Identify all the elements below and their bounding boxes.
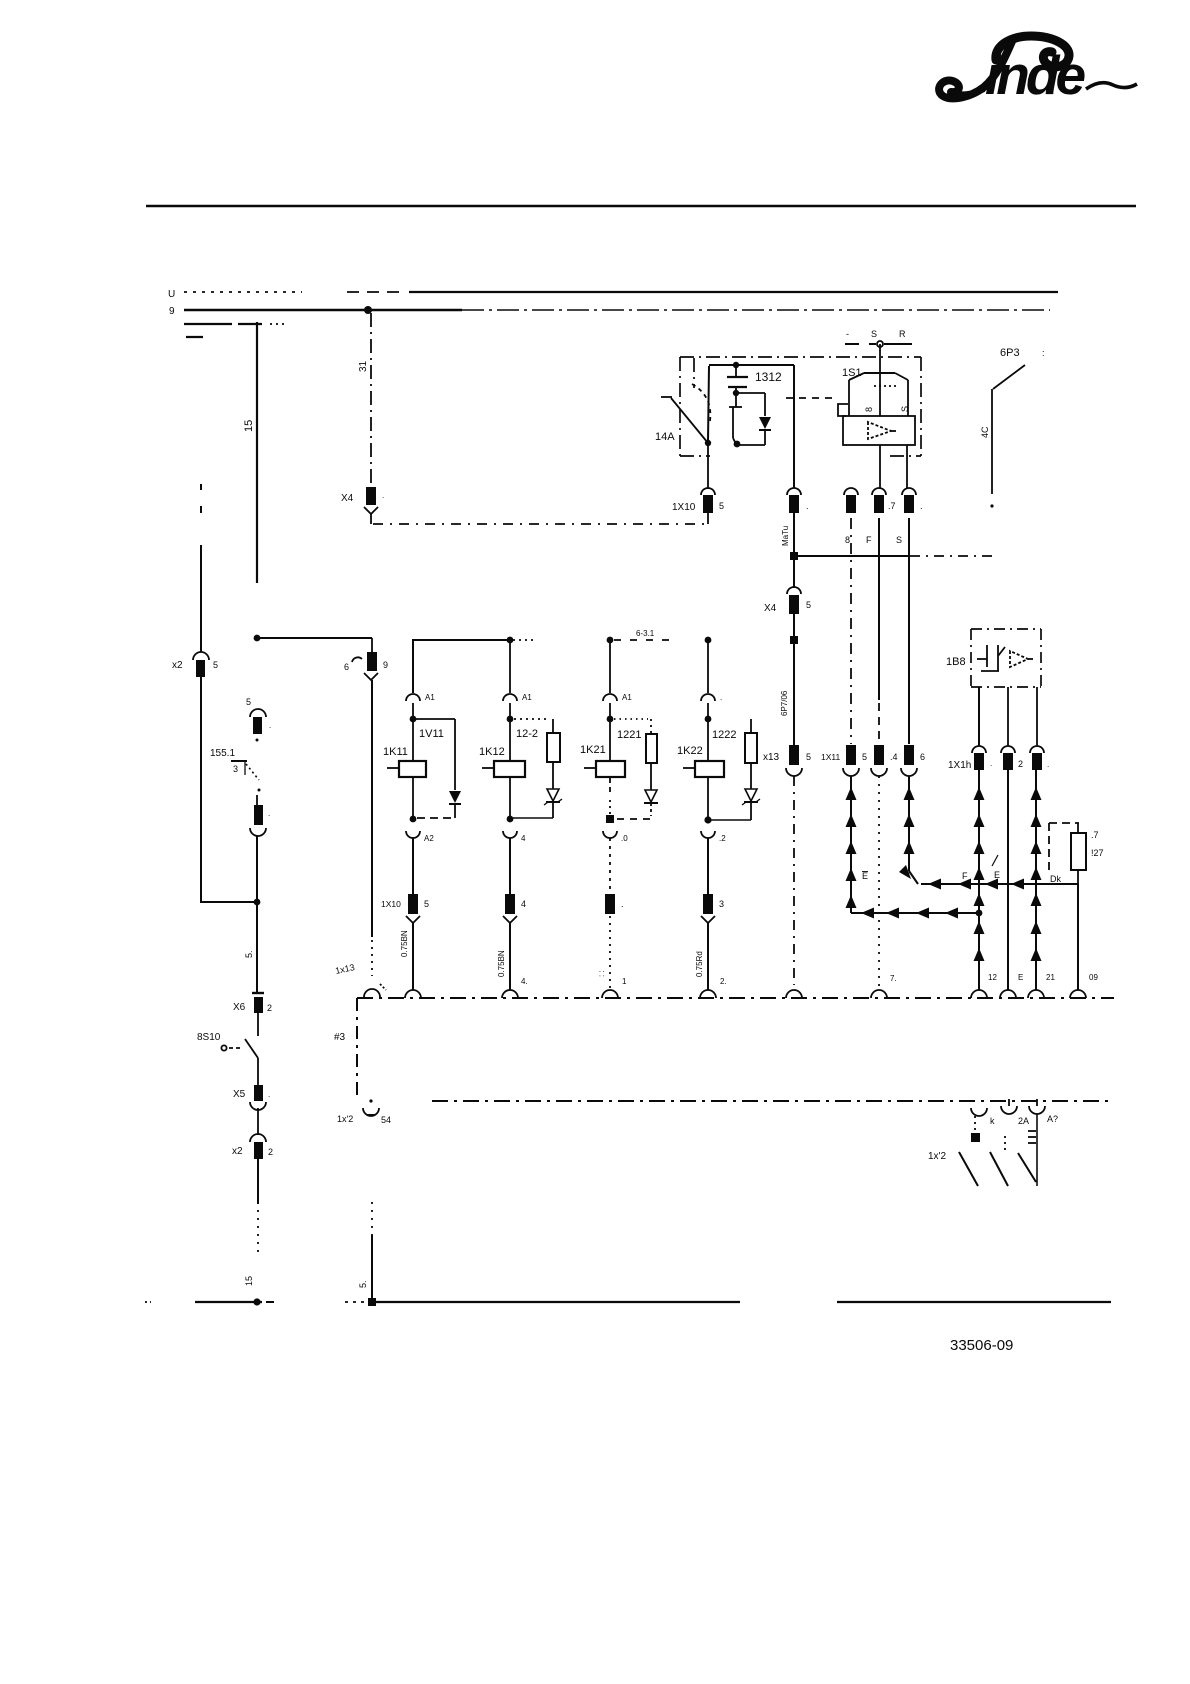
wire x1008 — [1000, 770, 1023, 998]
connector X13 pin 5 — [763, 745, 811, 998]
svg-text:1222: 1222 — [712, 729, 736, 741]
connector pin (1K12 bottom) — [497, 894, 528, 998]
svg-text:1B8: 1B8 — [946, 656, 966, 668]
connector X2 pin 5 (left) — [172, 652, 218, 677]
svg-text:54: 54 — [381, 1115, 391, 1125]
ground bus bottom — [145, 1298, 1111, 1306]
relay column 1K21 (dashed) — [603, 640, 648, 761]
connector pin (dash wire) — [844, 488, 858, 513]
diode (in 1312) — [759, 417, 771, 445]
wire 6P3 drop — [980, 347, 1045, 508]
svg-text:1X1h: 1X1h — [948, 760, 971, 771]
svg-text:Dk: Dk — [1050, 874, 1061, 884]
svg-text:1X11: 1X11 — [821, 752, 840, 762]
svg-text:E: E — [862, 871, 868, 881]
svg-text:7.: 7. — [890, 974, 897, 983]
svg-text:2.: 2. — [720, 977, 727, 986]
sensor 1B8 — [946, 629, 1041, 687]
connector pin (1312 wire) — [787, 488, 809, 513]
svg-text:09: 09 — [1089, 973, 1098, 982]
relay coil 1K11 — [383, 746, 426, 822]
svg-text:4C: 4C — [980, 426, 990, 438]
svg-text:.: . — [920, 501, 923, 511]
wire x909 with arrows to corner — [899, 776, 918, 884]
svg-text:.7: .7 — [1091, 830, 1099, 840]
wire x851 with direction arrows — [846, 776, 869, 913]
svg-text:A1: A1 — [522, 693, 532, 702]
svg-text:x2: x2 — [172, 660, 183, 671]
svg-text:4: 4 — [521, 834, 526, 843]
svg-text:1S1: 1S1 — [842, 367, 862, 379]
connector X2 pin 2 (lower) — [232, 1108, 273, 1159]
connector X5 — [233, 1085, 270, 1110]
svg-text::: : — [1042, 348, 1045, 358]
wire x201 lower — [201, 677, 255, 902]
svg-text:.2: .2 — [719, 834, 726, 843]
connector X4 pin 5 (lower) — [764, 587, 811, 636]
connector pin 4 (x879) — [871, 745, 898, 998]
connector below 1S51 — [250, 795, 270, 836]
wires 1B8 to connector 1X16 — [979, 687, 1037, 746]
svg-text:inde: inde — [985, 44, 1085, 106]
wire bus row 3 — [184, 323, 284, 325]
svg-text:E: E — [994, 870, 1000, 880]
svg-text:21: 21 — [1046, 973, 1055, 982]
horn unit 1S1 — [838, 344, 915, 489]
svg-text:!27: !27 — [1091, 848, 1104, 858]
svg-text:6P7/06: 6P7/06 — [780, 690, 789, 716]
switch group 1X12 (bottom right) — [928, 1114, 1037, 1186]
svg-text:31: 31 — [358, 360, 369, 372]
relay coil 1K22 — [677, 745, 724, 824]
svg-text:8: 8 — [864, 407, 874, 412]
svg-text:1x'2: 1x'2 — [337, 1114, 353, 1124]
relay 1312 — [708, 362, 794, 448]
connector A2 (1K12) — [503, 831, 526, 894]
svg-text:1K12: 1K12 — [479, 746, 505, 758]
svg-text:9: 9 — [169, 306, 175, 317]
wire resistor to bus — [1070, 884, 1098, 998]
wire 1312 output down — [793, 365, 795, 488]
connector A2 (1K11) — [406, 831, 434, 894]
svg-text:6P3: 6P3 — [1000, 347, 1020, 359]
connector 5 above fuse column — [246, 697, 271, 734]
svg-text:.: . — [268, 1090, 270, 1099]
svg-text:#3: #3 — [334, 1032, 346, 1043]
connector trio below y1101 (right) — [971, 1099, 1058, 1126]
svg-text:0.75BN: 0.75BN — [497, 950, 506, 977]
connector X4 (upper) — [341, 487, 384, 524]
header rule — [146, 205, 1136, 208]
wire bus row 2 (terminal 9) — [169, 306, 1050, 317]
svg-text:1x'2: 1x'2 — [928, 1151, 946, 1162]
wire x372 long vertical — [371, 680, 373, 976]
resistor 1R27 — [1049, 823, 1104, 884]
svg-text:.0: .0 — [621, 834, 628, 843]
svg-text:3: 3 — [719, 899, 724, 909]
zener diode (1K21 branch) — [644, 790, 658, 816]
zener diode (1K22 branch) — [708, 789, 760, 820]
svg-text:8: 8 — [845, 535, 850, 545]
diode 1V11 — [413, 719, 461, 818]
wire bus row 1 (terminal U) — [168, 289, 1058, 300]
svg-text:1312: 1312 — [755, 370, 782, 384]
wire x1036 with arrows — [1028, 770, 1055, 998]
svg-text:R: R — [899, 329, 906, 339]
svg-text:A?: A? — [1047, 1114, 1058, 1124]
svg-text:155.1: 155.1 — [210, 748, 235, 759]
connector 1X13 at bus — [334, 962, 386, 997]
connector pin (1K22 bottom) — [695, 894, 727, 998]
svg-text:F: F — [866, 535, 872, 545]
relay column 1K12 — [503, 640, 546, 761]
svg-text:.: . — [806, 501, 809, 511]
svg-text:1K22: 1K22 — [677, 745, 703, 757]
connector A2 (1K21) — [603, 831, 628, 894]
svg-text:2: 2 — [267, 1003, 272, 1013]
svg-text:S: S — [871, 329, 877, 339]
relay column 1K11 — [406, 640, 435, 761]
wire x201 dashed upper — [200, 484, 202, 652]
Linde logo — [939, 36, 1137, 106]
switch 1S51 3A — [210, 739, 261, 792]
svg-text:S: S — [900, 406, 910, 412]
svg-text:5: 5 — [424, 899, 429, 909]
svg-text:x2: x2 — [232, 1146, 243, 1157]
svg-text:1K11: 1K11 — [383, 746, 408, 758]
connector pin 6 (x909) — [901, 745, 925, 776]
svg-text:E: E — [1018, 973, 1023, 982]
svg-text:.: . — [269, 721, 271, 730]
wire x879 — [866, 518, 879, 742]
svg-text:X5: X5 — [233, 1089, 246, 1100]
svg-text:12: 12 — [988, 973, 997, 982]
wire x794 (1312 output) down — [781, 513, 993, 588]
wire 14A to pin 1X10 — [707, 445, 709, 489]
svg-text:.: . — [268, 809, 270, 818]
svg-text:6-3.1: 6-3.1 — [636, 629, 655, 638]
svg-text:5: 5 — [246, 697, 251, 707]
svg-text:6: 6 — [344, 662, 349, 672]
bus frame dash-dot y1101 — [432, 1100, 1114, 1102]
connector 6/9 (x372) — [344, 638, 388, 680]
wire relay feed rail 2 (dashed) — [607, 629, 712, 643]
svg-text:3: 3 — [233, 764, 238, 774]
wire x372 to ground bus — [358, 1202, 372, 1302]
connector pin .7 — [872, 488, 896, 513]
svg-text:.4: .4 — [890, 752, 898, 762]
connector 1X16 pins — [948, 746, 1049, 771]
svg-text:k: k — [990, 1116, 995, 1126]
svg-text:9: 9 — [383, 660, 388, 670]
svg-text:6: 6 — [920, 752, 925, 762]
svg-text:2: 2 — [1018, 759, 1023, 769]
relay column 1K22 — [701, 640, 722, 761]
svg-text:5: 5 — [806, 752, 811, 762]
bus frame dash-dot y998 — [357, 997, 1114, 999]
node junction (257,902) — [254, 899, 261, 906]
resistor 1Z12 — [516, 719, 560, 789]
wire bus row 4 — [186, 336, 203, 338]
wire X4 to 1X10 dash-dot — [373, 523, 708, 525]
svg-text:-: - — [846, 329, 849, 339]
svg-text:15: 15 — [243, 420, 255, 432]
svg-text:33506-09: 33506-09 — [950, 1337, 1013, 1354]
zener diode (1K12 branch) — [513, 789, 562, 818]
resistor 1Z21 — [617, 719, 657, 790]
svg-text:5: 5 — [719, 501, 724, 511]
svg-text:5: 5 — [806, 600, 811, 610]
wire x979 with arrows — [971, 770, 997, 998]
svg-text:.: . — [720, 693, 722, 702]
svg-text:A1: A1 — [622, 693, 632, 702]
svg-text:U: U — [168, 289, 175, 300]
svg-text:.: . — [1047, 760, 1049, 769]
relay coil 1K12 — [479, 746, 525, 822]
svg-text:A1: A1 — [425, 693, 435, 702]
svg-text:1X10: 1X10 — [381, 899, 401, 909]
connector 1X12 / 54 — [337, 1099, 391, 1125]
bus frame corner down x357 — [356, 998, 358, 1100]
svg-text:F: F — [962, 871, 968, 881]
svg-text:.: . — [990, 759, 992, 768]
svg-text:14A: 14A — [655, 431, 675, 443]
svg-text:5.: 5. — [358, 1280, 368, 1288]
svg-text:: :: : : — [597, 970, 606, 977]
svg-text:2A: 2A — [1018, 1116, 1029, 1126]
svg-text:1221: 1221 — [617, 729, 641, 741]
enclosure dash-dot box (ignition unit) — [680, 357, 921, 456]
svg-text:4: 4 — [521, 899, 526, 909]
svg-text:8S10: 8S10 — [197, 1032, 221, 1043]
node junction (794,640) — [780, 636, 798, 745]
svg-text:1X10: 1X10 — [672, 502, 696, 513]
svg-text:X4: X4 — [764, 603, 777, 614]
svg-text:12-2: 12-2 — [516, 728, 538, 740]
wire dashed 1312 to 1S1 — [786, 397, 838, 399]
wire relay feed rail 1 — [413, 637, 534, 693]
wire x909 — [896, 518, 909, 744]
resistor 1Z22 — [712, 719, 757, 789]
connector pin (1S1 right) — [902, 488, 923, 513]
svg-text:1K21: 1K21 — [580, 744, 606, 756]
relay coil 1K21 — [580, 744, 652, 823]
svg-text:1V11: 1V11 — [419, 728, 444, 740]
wire fuse column to corner — [256, 836, 258, 992]
wire horizontal y913 with arrows — [851, 908, 982, 919]
svg-text:0.75Rd: 0.75Rd — [695, 951, 704, 977]
svg-text:X6: X6 — [233, 1002, 246, 1013]
svg-text:X4: X4 — [341, 493, 354, 504]
svg-text:5: 5 — [213, 660, 218, 670]
connector 1X11 pin 5 — [821, 745, 867, 776]
node junction row2/x368 — [364, 306, 372, 314]
wire x258 to ground bus — [244, 1159, 258, 1286]
svg-text:5.: 5. — [244, 950, 254, 958]
connector X6 pin 2 — [233, 993, 272, 1036]
svg-text:2: 2 — [268, 1147, 273, 1157]
connector pin (1K21 bottom) — [597, 894, 627, 998]
switch 8S10 — [197, 1032, 258, 1085]
switch 14A (key switch) — [655, 384, 711, 446]
connector A2 (1K22) — [701, 831, 726, 894]
connector 1X10 pin (1K11 bottom) — [381, 894, 429, 998]
svg-text:A2: A2 — [424, 834, 434, 843]
node junction (257,638) — [254, 635, 261, 642]
svg-text:.: . — [382, 491, 384, 500]
svg-text:15: 15 — [244, 1276, 254, 1286]
wire 1X11 dash-dot — [845, 518, 851, 744]
svg-text:MaTu: MaTu — [781, 526, 790, 546]
wire 31 dash-dot vertical x371 to X4 — [358, 313, 371, 486]
svg-text:5: 5 — [862, 752, 867, 762]
terminal labels - S R above 1S1 — [845, 329, 912, 347]
wire horizontal y884 with arrows — [921, 855, 1078, 890]
wire junction 638 to connector x372 — [257, 637, 372, 639]
svg-text:.: . — [621, 899, 624, 909]
svg-text:1: 1 — [622, 977, 627, 986]
svg-text:0.75BN: 0.75BN — [400, 930, 409, 957]
svg-text:x13: x13 — [763, 752, 780, 763]
svg-text:S: S — [896, 535, 902, 545]
wire 15 vertical x257 — [243, 322, 257, 583]
svg-text:.7: .7 — [888, 501, 896, 511]
svg-text:4.: 4. — [521, 977, 528, 986]
connector 1X10 pin 5 — [672, 488, 724, 524]
